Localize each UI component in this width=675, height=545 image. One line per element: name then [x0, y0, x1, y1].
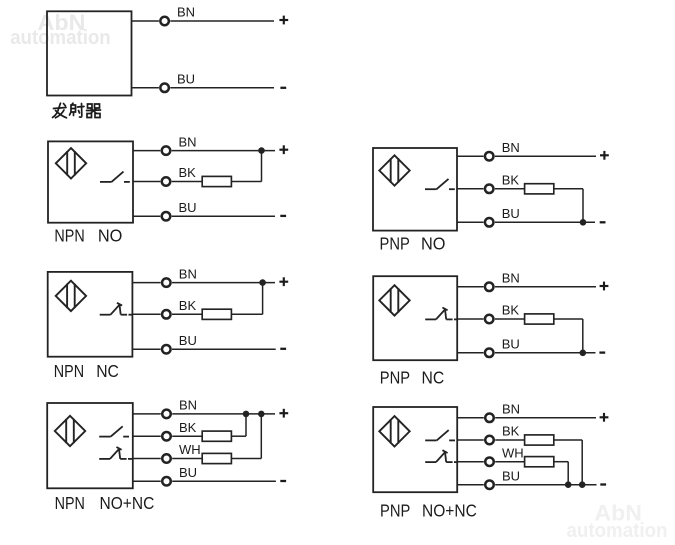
junction dot NPN NO+NC WH on +V line — [258, 411, 265, 418]
terminal NPN NO+NC BK — [162, 432, 171, 441]
wire emitter BU 0V line — [170, 87, 274, 89]
svg-text:BU: BU — [502, 206, 520, 221]
wire emitter BN from box — [132, 20, 159, 22]
wire NPN NC BK to load — [172, 313, 202, 315]
wire NPN NC BU from box — [132, 348, 160, 350]
junction dot PNP NO+NC BK on 0V line — [579, 481, 586, 488]
wire NPN NO+NC BK to load — [172, 435, 202, 437]
wire PNP NO BU 0V line — [495, 221, 595, 223]
terminal PNP NO BU — [485, 218, 494, 227]
load resistor NPN NC BK load — [202, 309, 231, 319]
wire PNP NO+NC BK to load — [495, 439, 524, 441]
terminal emitter BN — [160, 17, 169, 26]
sensor box NPN NO — [48, 141, 133, 222]
wire PNP NC BU 0V line — [495, 352, 596, 354]
svg-text:NC: NC — [96, 361, 119, 381]
minus supply terminal NPN NO+NC — [280, 480, 286, 482]
terminal NPN NO+NC BN — [162, 410, 171, 419]
sensor box PNP NO — [373, 148, 457, 231]
wire NPN NO+NC WH from load — [231, 458, 261, 460]
terminal emitter BU — [160, 84, 169, 93]
minus supply terminal emitter - — [280, 87, 286, 89]
wire PNP NO BK from load — [554, 188, 583, 190]
terminal PNP NC BN — [485, 283, 494, 292]
wire NPN NO BN from box — [133, 150, 160, 152]
junction dot NPN NO BK on +V line — [258, 147, 265, 154]
svg-text:BK: BK — [179, 298, 197, 313]
minus supply terminal NPN NO — [280, 215, 286, 217]
wire PNP NC BN supply line — [495, 286, 596, 288]
load resistor PNP NO+NC BK load — [525, 435, 554, 445]
wire NPN NO+NC WH from box — [133, 458, 161, 460]
wire NPN NO BU from box — [133, 215, 160, 217]
svg-text:BK: BK — [502, 303, 520, 318]
load resistor NPN NO+NC WH load — [202, 453, 231, 463]
junction dot NPN NC BK on +V line — [259, 279, 266, 286]
wire NPN NO+NC WH to load — [172, 458, 202, 460]
wire NPN NC BK from load — [231, 313, 262, 315]
svg-text:BN: BN — [502, 140, 520, 155]
plus supply terminal PNP NC — [600, 282, 609, 291]
svg-text:BN: BN — [177, 5, 195, 20]
wire PNP NO BK to load — [495, 188, 525, 190]
photoelectric sensor symbol PNP NO — [379, 155, 409, 185]
wire NPN NO BK to load — [172, 181, 203, 183]
svg-text:BN: BN — [502, 271, 520, 286]
svg-text:NC: NC — [422, 368, 445, 388]
wire PNP NO BN from box — [457, 155, 484, 157]
svg-text:BN: BN — [179, 134, 197, 149]
terminal PNP NO+NC WH — [485, 457, 494, 466]
terminal NPN NC BU — [162, 345, 171, 354]
wire PNP NO+NC WH from load — [554, 461, 568, 463]
terminal NPN NO BU — [162, 212, 171, 221]
junction dot PNP NO BK on 0V line — [580, 219, 587, 226]
NC switch contact NPN NC — [100, 303, 133, 315]
minus supply terminal PNP NO — [600, 221, 606, 223]
svg-text:automation: automation — [567, 520, 668, 542]
terminal NPN NO+NC WH — [162, 454, 171, 463]
svg-text:BK: BK — [179, 420, 197, 435]
terminal NPN NC BN — [162, 278, 171, 287]
wire NPN NO+NC BK from box — [133, 435, 161, 437]
terminal PNP NO+NC BN — [485, 414, 494, 423]
emitter box 发射器 — [47, 11, 132, 95]
NC switch contact PNP NC — [425, 308, 458, 320]
photoelectric sensor symbol PNP NO+NC — [379, 416, 409, 446]
svg-text:BU: BU — [502, 337, 520, 352]
svg-text:BN: BN — [179, 398, 197, 413]
svg-text:NO: NO — [98, 225, 123, 245]
svg-text:PNP: PNP — [380, 368, 410, 388]
wire PNP NO+NC BK from load — [554, 439, 582, 441]
sensor box PNP NC — [373, 276, 457, 360]
terminal NPN NC BK — [162, 310, 171, 319]
wire NPN NO+NC BU from box — [133, 480, 161, 482]
terminal PNP NC BU — [485, 349, 494, 358]
photoelectric sensor symbol NPN NO — [56, 148, 86, 178]
wire PNP NO+NC WH to load — [495, 461, 524, 463]
terminal NPN NO BK — [162, 177, 171, 186]
svg-text:BK: BK — [179, 165, 197, 180]
wire PNP NO+NC BN from box — [457, 417, 484, 419]
wire NPN NO+NC BK load to +V — [245, 414, 247, 436]
svg-text:NO+NC: NO+NC — [422, 501, 477, 521]
svg-text:automation: automation — [10, 27, 111, 49]
svg-text:NPN: NPN — [55, 493, 85, 513]
wire NPN NO BK from box — [133, 181, 160, 183]
wire NPN NO+NC BU 0V line — [172, 480, 276, 482]
wire PNP NO+NC BN supply line — [495, 417, 596, 419]
svg-text:BU: BU — [502, 468, 520, 483]
NC switch contact NPN NO+NC — [99, 447, 132, 459]
wire PNP NO+NC BU 0V line — [495, 484, 596, 486]
svg-text:PNP: PNP — [380, 501, 410, 521]
minus supply terminal NPN NC — [280, 348, 286, 350]
terminal NPN NO BN — [162, 146, 171, 155]
svg-text:NPN: NPN — [54, 361, 84, 381]
wire NPN NO+NC BN supply line — [172, 413, 275, 415]
terminal PNP NC BK — [485, 315, 494, 324]
wire NPN NO+NC BN from box — [133, 413, 161, 415]
wire NPN NO+NC WH load to +V — [260, 414, 262, 459]
wire PNP NC BK to load — [495, 318, 525, 320]
NC switch contact PNP NO+NC — [425, 450, 458, 462]
junction dot PNP NO+NC WH on 0V line — [565, 481, 572, 488]
load resistor NPN NO+NC BK load — [202, 431, 231, 441]
wire NPN NC BU 0V line — [172, 348, 276, 350]
wire NPN NC BK load to +V — [262, 283, 264, 315]
NO switch contact NPN NO+NC — [99, 426, 129, 436]
wire PNP NO+NC WH load to 0V — [567, 462, 569, 485]
terminal PNP NO+NC BU — [485, 480, 494, 489]
wire NPN NO BK load to +V — [261, 151, 263, 182]
wire PNP NO+NC WH from box — [457, 461, 484, 463]
plus supply terminal NPN NO+NC — [279, 409, 288, 418]
photoelectric sensor symbol NPN NO+NC — [55, 416, 85, 446]
junction dot NPN NO+NC BK on +V line — [243, 411, 250, 418]
svg-text:NO+NC: NO+NC — [100, 493, 155, 513]
svg-text:WH: WH — [179, 442, 201, 457]
wire PNP NC BU from box — [457, 352, 483, 354]
wire NPN NC BK from box — [132, 313, 160, 315]
wire NPN NC BN supply line — [172, 282, 275, 284]
wire PNP NC BK from box — [457, 318, 483, 320]
wire PNP NO+NC BK load to 0V — [581, 440, 583, 485]
wire emitter BU from box — [132, 87, 159, 89]
svg-text:BK: BK — [502, 424, 520, 439]
label 发射器 (emitter) — [53, 103, 101, 118]
wire PNP NC BN from box — [457, 286, 483, 288]
plus supply terminal NPN NC — [279, 277, 288, 286]
minus supply terminal PNP NO+NC — [600, 483, 606, 485]
NO switch contact NPN NO — [100, 172, 130, 182]
svg-text:BU: BU — [179, 333, 197, 348]
load resistor NPN NO BK load — [202, 176, 231, 186]
wire PNP NO+NC BK from box — [457, 439, 484, 441]
plus supply terminal NPN NO — [279, 145, 288, 154]
svg-text:BU: BU — [179, 200, 197, 215]
terminal PNP NO BN — [485, 152, 494, 161]
svg-text:BK: BK — [502, 173, 520, 188]
photoelectric sensor symbol PNP NC — [379, 285, 409, 315]
svg-text:BU: BU — [177, 72, 195, 87]
terminal PNP NO BK — [485, 185, 494, 194]
plus supply terminal PNP NO+NC — [600, 413, 609, 422]
minus supply terminal PNP NC — [599, 351, 605, 353]
wire NPN NO+NC BK from load — [231, 435, 246, 437]
wire NPN NO BU 0V line — [172, 215, 275, 217]
terminal NPN NO+NC BU — [162, 477, 171, 486]
svg-text:NO: NO — [421, 234, 446, 254]
svg-text:PNP: PNP — [380, 234, 410, 254]
wire PNP NO BN supply line — [495, 155, 596, 157]
svg-text:WH: WH — [502, 445, 524, 460]
NO switch contact PNP NO — [425, 179, 455, 189]
wire NPN NO BN supply line — [172, 150, 275, 152]
svg-text:BN: BN — [179, 266, 197, 281]
sensor box NPN NC — [48, 272, 133, 357]
photoelectric sensor symbol NPN NC — [56, 281, 86, 311]
junction dot PNP NC BK on 0V line — [580, 350, 587, 357]
plus supply terminal emitter + — [279, 16, 288, 25]
load resistor PNP NO BK load — [525, 184, 554, 194]
wire PNP NC BK load to 0V — [582, 319, 584, 353]
wire PNP NO BK from box — [457, 188, 484, 190]
svg-text:NPN: NPN — [54, 225, 84, 245]
wire emitter BN supply line — [170, 20, 274, 22]
svg-text:BN: BN — [502, 402, 520, 417]
sensor box PNP NO+NC — [373, 407, 457, 492]
wire PNP NC BK from load — [554, 318, 583, 320]
load resistor PNP NC BK load — [525, 314, 554, 324]
wire PNP NO+NC BU from box — [457, 484, 484, 486]
sensor box NPN NO+NC — [47, 403, 133, 488]
wire NPN NC BN from box — [132, 282, 160, 284]
load resistor PNP NO+NC WH load — [525, 457, 554, 467]
terminal PNP NO+NC BK — [485, 436, 494, 445]
wire PNP NO BU from box — [457, 221, 484, 223]
svg-text:BU: BU — [179, 465, 197, 480]
wire PNP NO BK load to 0V — [582, 189, 584, 223]
plus supply terminal PNP NO — [600, 151, 609, 160]
wire NPN NO BK from load — [231, 181, 261, 183]
NO switch contact PNP NO+NC — [425, 430, 455, 440]
